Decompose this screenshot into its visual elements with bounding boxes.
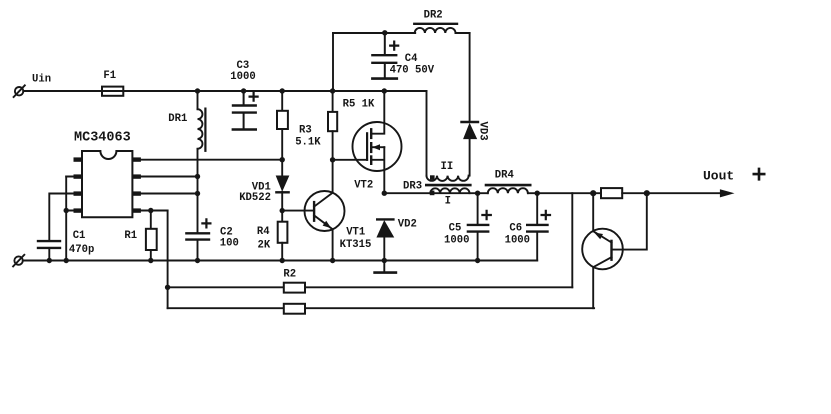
resistor R3 [277,91,288,176]
svg-text:I: I [445,196,451,208]
svg-text:II: II [441,161,454,173]
inductor DR4 [486,185,530,193]
node DR1 pin7 [195,174,200,179]
wire Vin rail corner down to winding II left [426,91,428,176]
label Uout plus sign [754,169,764,179]
svg-text:F1: F1 [103,70,116,82]
svg-text:VD3: VD3 [477,122,489,141]
node R3 top [280,88,285,93]
DR3 phase dot winding II [430,175,435,180]
svg-text:R5 1K: R5 1K [343,99,375,111]
svg-text:C6: C6 [509,223,522,235]
svg-text:DR1: DR1 [168,113,187,125]
pin 4 stub [74,208,83,212]
node C6 top [535,191,540,196]
capacitor C5 1000 [468,193,491,260]
wire snubber top rail left of DR2 [333,32,415,34]
wire output line VD2 node to C5 node [384,192,488,194]
VT2 body arrow [371,144,384,150]
fuse F1 [102,87,123,96]
svg-text:1000: 1000 [505,235,530,247]
wire pin7 to DR1 bottom [141,176,198,178]
VT2 source link [371,147,384,193]
pin 1 stub [74,157,83,161]
node R5 top [330,88,335,93]
node VD1 R4 base [280,208,285,213]
svg-text:DR2: DR2 [424,10,443,22]
svg-text:R1: R1 [124,230,137,242]
input terminal Uin+ [14,85,25,97]
wire upper feedback R2a line [168,286,573,288]
svg-text:KD522: KD522 [239,192,271,204]
svg-text:R4: R4 [257,226,270,238]
resistor R4 [278,211,288,261]
capacitor C1 470p [38,194,60,261]
capacitor C6 1000 [527,193,550,260]
node sense right [644,190,650,196]
output arrowhead [720,189,735,197]
wire Vin rail F1 to transformer [123,90,426,92]
wire left riser x=66.2 to ground rail [65,177,67,261]
diode VD1 KD522 [276,176,288,211]
node gate R5 [330,157,335,162]
node C4 top [382,30,387,35]
VT3 base bar [610,241,612,260]
node feedback split [165,285,170,290]
wire upper feedback riser x=572.3 [571,193,573,287]
svg-text:1000: 1000 [230,71,255,83]
svg-text:Uout: Uout [703,169,734,184]
node pin2 riser [63,208,68,213]
node C5 gnd [475,258,480,263]
wire pin4 to left riser [66,210,82,212]
svg-text:KT315: KT315 [340,239,372,251]
wire pin6 to C2 node [141,193,198,195]
pin 5 stub [132,208,141,212]
transistor VT1 KT315 circle [305,191,345,231]
node DR1 top [195,88,200,93]
capacitor C3 [233,91,258,130]
resistor R2a [284,283,305,293]
capacitor C4 [372,33,398,79]
svg-text:C1: C1 [73,230,86,242]
wire VD3 anode to winding II right [469,139,471,176]
node DR1 pin6 C2 [195,191,200,196]
wire lower feedback R2b line [168,307,594,309]
svg-text:1000: 1000 [444,235,469,247]
pin 3 stub [74,191,83,195]
svg-text:DR4: DR4 [495,170,515,182]
svg-text:VD2: VD2 [398,219,417,231]
transformer DR3 winding II [427,176,469,181]
svg-text:VT2: VT2 [354,180,373,192]
node VD2 gnd [382,258,387,263]
node VD2 top [382,191,387,196]
svg-text:C5: C5 [449,223,462,235]
wire pin8 to R3 node [141,159,282,161]
node R1 gnd [148,258,153,263]
wire snubber top rail right of DR2 [456,32,470,34]
svg-text:470 50V: 470 50V [390,65,435,77]
node C5 top [475,191,480,196]
wire snubber rail riser x=334 [332,33,334,91]
VT1 collector [314,160,333,207]
node sense left [590,190,596,196]
input terminal Uin- [13,255,24,267]
resistor R2b [284,304,305,314]
diode VD2 [377,219,393,260]
wire pin2 to left riser [66,176,82,178]
pin 2 stub [74,174,83,178]
node riser gnd [63,258,68,263]
diode VD3 [462,122,479,139]
svg-text:R3: R3 [299,125,312,137]
svg-text:MC34063: MC34063 [74,131,131,146]
wire feedback left riser x=165.6 [167,211,169,309]
pin 6 stub [132,191,141,195]
svg-text:470p: 470p [69,244,94,256]
inductor DR1 [198,91,206,194]
svg-text:100: 100 [220,238,239,250]
svg-text:R2: R2 [283,269,296,281]
wire pin5 to feedback corner [141,210,168,212]
svg-text:DR3: DR3 [403,181,422,193]
svg-text:2K: 2K [258,240,271,252]
VT3 base lead to right riser [612,193,647,249]
node VT2 drain [382,88,387,93]
ground symbol below rail [375,261,396,273]
pin 8 stub [132,157,141,161]
node C2 gnd [195,258,200,263]
VT2 channel segments [370,129,372,164]
capacitor C2 100 [186,194,210,261]
VT1 base bar [313,202,315,221]
resistor R1 [146,211,157,261]
node dots [47,88,650,290]
node VT1 emitter gnd [330,258,335,263]
node R4 gnd [280,258,285,263]
DR3 core [426,184,470,187]
inductor DR2 [414,24,457,33]
wire terminal to F1 [23,90,102,92]
svg-text:5.1K: 5.1K [295,136,321,148]
svg-text:Uin: Uin [32,74,51,86]
node R3 pin8 [280,157,285,162]
transistor VT3 circle (feedback sense) [582,229,623,270]
svg-text:VT1: VT1 [346,227,365,239]
op-amp IC DA1 MC34063 body [82,151,132,217]
node C3 top [241,88,246,93]
VT2 gate bar [366,133,368,160]
resistor R5 [328,91,337,160]
wire gate node to MOSFET gate [333,159,368,161]
transistor VT2 MOSFET circle [353,122,402,171]
wire VD1 node to VT1 base [282,210,314,212]
node R1 top [148,208,153,213]
VT3 collector diagonal [593,257,611,308]
VT1 emitter with arrow [314,215,333,260]
node C1 gnd [47,258,52,263]
DR3 phase dot winding I [430,191,435,196]
wire pin3 to C1 [50,193,82,195]
transformer DR3 winding I [430,188,469,193]
ground rail [23,260,537,262]
wire DR4 to sense resistor [528,192,601,194]
wire VD3 chain riser x=469.6 top [469,33,471,121]
VT3 emitter diagonal with arrow [593,193,611,242]
pin 7 stub [132,174,141,178]
VT2 drain link [371,91,384,134]
sense resistor on output line [601,188,720,198]
svg-text:C4: C4 [405,53,418,65]
